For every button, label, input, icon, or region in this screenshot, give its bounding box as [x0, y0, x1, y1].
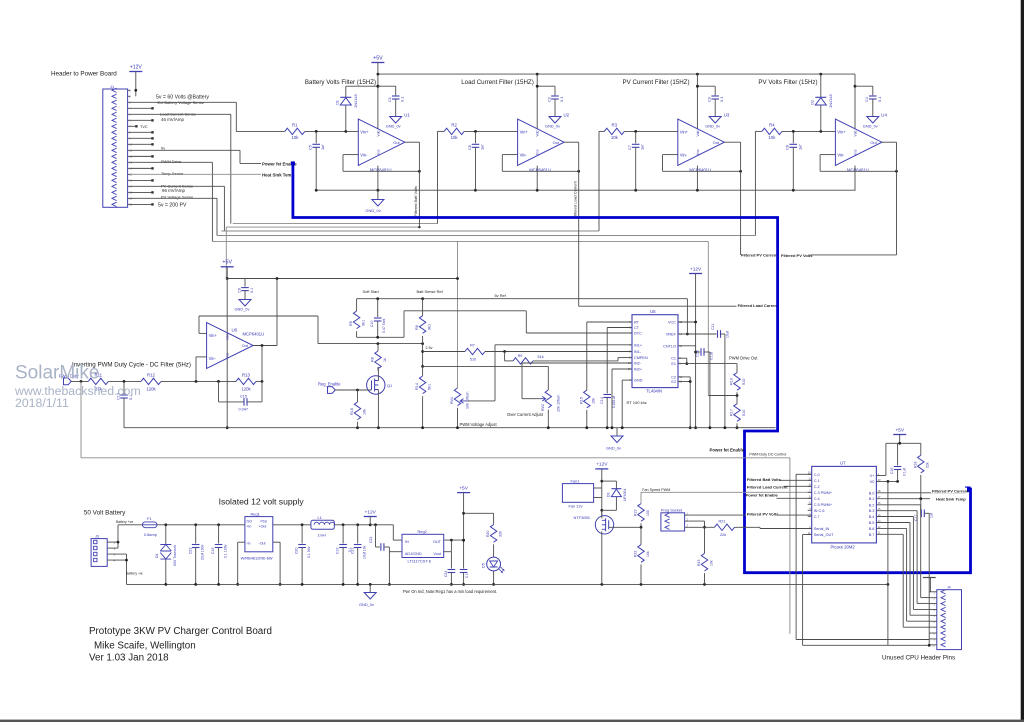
- svg-text:PV Current Filter (15HZ): PV Current Filter (15HZ): [622, 79, 689, 86]
- resistor R16: [350, 390, 366, 428]
- wire soft start bottom: [357, 336, 404, 339]
- svg-text:1N4148: 1N4148: [353, 94, 358, 108]
- capacitor C10: [370, 299, 386, 338]
- svg-text:1uf: 1uf: [320, 144, 325, 150]
- svg-text:Reg2: Reg2: [418, 529, 427, 534]
- wire riser to R4: [754, 131, 756, 235]
- svg-text:E2: E2: [671, 380, 676, 384]
- wire highlighted blue net (Power fet Enable route): [291, 161, 971, 572]
- wire TL494 GND pin: [622, 380, 632, 428]
- wire Fan Speed PWM: [641, 492, 812, 503]
- label 5v = 60 Volts @Battery: [156, 94, 209, 100]
- wire Vdd stem U1: [377, 74, 380, 128]
- svg-text:IN2-: IN2-: [634, 362, 642, 366]
- watermark www.thebackshed.com: [14, 384, 141, 398]
- svg-text:C17: C17: [914, 515, 918, 521]
- IC U7 Picaxe 20M2: [812, 461, 877, 550]
- svg-text:R19: R19: [634, 510, 638, 516]
- capacitor C7: [627, 131, 645, 190]
- svg-text:C20: C20: [295, 548, 299, 554]
- svg-text:R9: R9: [518, 354, 523, 358]
- svg-text:2.5v: 2.5v: [426, 346, 433, 350]
- wire Filtered Load Current to C.2: [784, 485, 812, 487]
- svg-text:Reg1: Reg1: [251, 511, 260, 516]
- power +12V (fan): [595, 462, 608, 469]
- net label PWM Duty DC Control: [749, 452, 786, 456]
- svg-text:C6: C6: [467, 145, 472, 150]
- filters ground rail: [315, 189, 856, 192]
- svg-text:MCP6401U: MCP6401U: [370, 168, 392, 173]
- wire pin11 Power fet Enable: [130, 150, 261, 163]
- ground GND_0v (U2 top): [545, 117, 561, 129]
- svg-text:0.47 Tant: 0.47 Tant: [382, 319, 386, 333]
- svg-text:C2: C2: [546, 97, 551, 102]
- svg-text:1mH: 1mH: [318, 532, 326, 537]
- net label Filtered PV Current (top): [741, 252, 778, 257]
- svg-text:Prototype 3KW PV Charger Contr: Prototype 3KW PV Charger Control Board: [89, 626, 272, 637]
- svg-text:1uf: 1uf: [797, 144, 802, 150]
- wire +12V to J1 pins 1-2: [134, 72, 137, 97]
- svg-text:10k: 10k: [592, 398, 596, 404]
- svg-text:B.1: B.1: [869, 497, 875, 501]
- svg-text:D2: D2: [809, 100, 814, 105]
- svg-text:Filtered Load Current: Filtered Load Current: [738, 303, 779, 308]
- title Load Current Filter: [461, 79, 534, 86]
- label PWM Drive: [161, 159, 182, 164]
- capacitor C15: [219, 381, 263, 411]
- svg-text:Vdd: Vdd: [854, 130, 858, 136]
- svg-text:0.1uf: 0.1uf: [902, 468, 906, 476]
- svg-text:9k1: 9k1: [428, 324, 432, 330]
- supply ground rail: [127, 583, 890, 586]
- title Mike Scaife Wellington: [94, 640, 196, 651]
- svg-text:5v = 200 PV: 5v = 200 PV: [158, 202, 187, 208]
- svg-text:46 mV/Amp: 46 mV/Amp: [161, 117, 184, 122]
- svg-text:Vin+: Vin+: [520, 129, 529, 134]
- resistor R23: [697, 527, 713, 584]
- label 5v = 200 PV: [158, 202, 187, 208]
- svg-text:Vdd: Vdd: [226, 334, 230, 340]
- resistor R20: [486, 525, 502, 558]
- title Prototype 3KW PV Charger Control Board: [89, 626, 272, 637]
- svg-text:OUT: OUT: [433, 540, 442, 544]
- svg-text:E1: E1: [671, 362, 676, 366]
- bus PV Voltage Sense (y236): [217, 235, 755, 237]
- power +5V (U7): [893, 427, 906, 434]
- svg-text:V+: V+: [870, 474, 876, 478]
- label PWM Drive Out: [729, 355, 758, 360]
- svg-text:C15: C15: [240, 394, 247, 398]
- svg-text:TL494IN: TL494IN: [646, 388, 662, 393]
- label Fan Speed PWM: [642, 488, 670, 492]
- svg-text:Filtered PV Current: Filtered PV Current: [932, 489, 969, 494]
- net label Filtered Load Current: [573, 180, 578, 218]
- svg-text:C.7: C.7: [814, 515, 820, 519]
- svg-text:Filtered PV Current: Filtered PV Current: [741, 252, 778, 257]
- svg-text:51k: 51k: [538, 355, 544, 359]
- svg-text:R4: R4: [769, 123, 775, 128]
- svg-text:GND: GND: [634, 379, 643, 383]
- supply wire Reg1 to L1: [273, 523, 311, 526]
- net label Filtered PV Volts (top): [781, 253, 813, 258]
- capacitor C1: [387, 96, 405, 117]
- wire output riser: [226, 277, 459, 345]
- svg-text:B.2: B.2: [869, 503, 875, 507]
- wire B.0 Filtered PV Current: [876, 488, 967, 494]
- resistor R14: [415, 366, 431, 427]
- wire top cap branch U3: [696, 85, 715, 96]
- svg-text:GND_0v: GND_0v: [235, 307, 250, 312]
- wire Vin+ bias route: [199, 316, 424, 345]
- LED D5: [482, 557, 505, 572]
- svg-text:Filtered Batt Volts: Filtered Batt Volts: [747, 477, 782, 482]
- capacitor C14: [600, 328, 616, 428]
- wire bus2 down to U6 area: [225, 227, 227, 278]
- net label Power fet Enable (mid): [710, 447, 745, 452]
- svg-text:510: 510: [742, 410, 746, 416]
- svg-text:10k: 10k: [611, 135, 619, 140]
- U7 left pins: [808, 471, 835, 537]
- svg-text:C1: C1: [671, 357, 676, 361]
- power +5V (supply out): [457, 485, 470, 492]
- capacitor C25: [460, 493, 469, 586]
- svg-text:R2: R2: [451, 123, 457, 128]
- svg-text:DTC: DTC: [634, 332, 642, 336]
- wire output U4 Filtered PV Volts: [810, 142, 896, 255]
- capacitor C6: [467, 131, 485, 190]
- ground GND_0v (U3 top): [705, 117, 721, 129]
- svg-text:10k: 10k: [451, 135, 459, 140]
- svg-text:96 mV/Amp: 96 mV/Amp: [162, 188, 185, 193]
- wire top cap branch U4: [855, 86, 873, 95]
- J1 pin stubs and numbers: [128, 89, 133, 207]
- wire PWM Drive down to R10/R17: [707, 241, 709, 395]
- wire output U1: [405, 142, 420, 227]
- diode D3: [602, 481, 627, 510]
- label 50 Volt Battery: [84, 510, 126, 517]
- regulator Reg2: [402, 529, 444, 563]
- wire V+ riser: [876, 443, 886, 475]
- net label Power fet Enable: [262, 161, 297, 166]
- svg-text:10k: 10k: [768, 135, 776, 140]
- J1 unused pin stub squares: [130, 107, 153, 205]
- label RT 100 khz: [627, 400, 647, 405]
- svg-text:100: 100: [646, 510, 650, 516]
- resistor R19: [634, 504, 650, 522]
- wire J3 negative: [107, 554, 128, 584]
- wire Vss stem U2: [536, 166, 538, 191]
- wire riser to R2: [437, 131, 439, 223]
- wire IN2+ ground: [612, 369, 632, 428]
- svg-text:CMPEN: CMPEN: [634, 356, 648, 360]
- wire Vdd stem U4: [854, 74, 857, 128]
- wire diode top branch: [346, 85, 380, 88]
- wire C9 branch: [227, 279, 245, 287]
- wire R11 to R12: [108, 380, 141, 383]
- svg-text:C7: C7: [627, 145, 632, 150]
- resistor R10: [730, 373, 746, 391]
- wire top cap branch U2: [536, 85, 555, 96]
- svg-text:D3: D3: [607, 492, 611, 497]
- diode D1: [334, 86, 358, 131]
- wire Reg2 Vout: [444, 540, 452, 552]
- svg-text:0.1uf: 0.1uf: [709, 352, 713, 360]
- svg-text:Out: Out: [393, 140, 400, 145]
- title PV Volts Filter: [758, 79, 817, 86]
- svg-text:Filtered Load Current: Filtered Load Current: [747, 484, 788, 489]
- title Isolated 12 volt supply: [219, 497, 305, 507]
- svg-text:U7: U7: [840, 461, 846, 466]
- wire R21 to Serial_IN: [735, 527, 812, 528]
- fan header Fan1: [562, 478, 601, 508]
- label Soft Start: [363, 289, 380, 294]
- net label Power fet Enable (U7): [746, 493, 779, 498]
- wire Reg1 -In: [236, 542, 245, 586]
- svg-text:Fan1: Fan1: [571, 478, 580, 483]
- wire feedback U1: [343, 155, 421, 173]
- svg-text:C8: C8: [785, 145, 790, 150]
- wire +12V stem (supply): [369, 517, 371, 525]
- op-amp U3 designator: [724, 112, 730, 117]
- wire pin13 PWM Drive: [130, 162, 212, 241]
- wire V0: [876, 480, 899, 483]
- svg-text:+12V: +12V: [130, 64, 142, 70]
- svg-text:0.1: 0.1: [877, 97, 882, 102]
- power +5V (U6): [221, 260, 234, 267]
- svg-text:Vss: Vss: [854, 149, 858, 155]
- transistor Q2 NTF3055: [574, 515, 614, 534]
- svg-text:C10: C10: [370, 321, 374, 327]
- U5 left pin labels: [628, 320, 648, 383]
- wire RV1 feed: [457, 241, 459, 388]
- U7 right pins: [869, 472, 881, 537]
- svg-text:0.047: 0.047: [239, 408, 249, 412]
- resistor R4: [762, 123, 782, 141]
- svg-text:10k: 10k: [646, 551, 650, 557]
- connector J3: [91, 534, 115, 566]
- wire C2/E2 ground: [678, 377, 692, 429]
- svg-text:510: 510: [470, 357, 476, 361]
- svg-text:10uf 16v: 10uf 16v: [363, 545, 367, 559]
- svg-text:22k: 22k: [720, 533, 726, 537]
- svg-text:Unused CPU Header Pins: Unused CPU Header Pins: [882, 654, 955, 661]
- label Unused CPU Header Pins: [882, 654, 955, 661]
- svg-text:W/RB4812MD-6W: W/RB4812MD-6W: [241, 555, 273, 560]
- svg-text:0.1: 0.1: [400, 97, 405, 102]
- svg-text:+12V: +12V: [596, 462, 608, 468]
- svg-text:R13: R13: [242, 372, 250, 377]
- resistor R7: [465, 344, 485, 362]
- IC U5 TL494: [632, 309, 678, 393]
- svg-text:Vin+: Vin+: [837, 129, 846, 134]
- wire feedback U2: [502, 155, 580, 173]
- resistor R3: [604, 123, 624, 141]
- svg-text:Vin+: Vin+: [680, 129, 689, 134]
- potentiometer RV1: [450, 388, 470, 428]
- svg-text:IN1-: IN1-: [634, 350, 642, 354]
- capacitor C12: [695, 348, 713, 428]
- svg-text:910: 910: [742, 379, 746, 385]
- capacitor C5: [308, 131, 326, 190]
- bus Filtered Batt Volts (y224): [233, 223, 438, 225]
- wire Q2 drain: [601, 510, 603, 518]
- svg-text:C24: C24: [444, 571, 448, 577]
- svg-text:C.0: C.0: [814, 473, 820, 477]
- svg-text:C16: C16: [890, 468, 894, 474]
- svg-text:B.5: B.5: [869, 521, 875, 525]
- wire 5v Ref rail: [357, 297, 688, 300]
- wire C1/E1 tie PWM Drive Out: [678, 358, 737, 372]
- svg-text:+5V: +5V: [222, 260, 232, 266]
- ground bar J4 pin1: [923, 578, 936, 592]
- svg-text:R21: R21: [719, 519, 726, 523]
- wire Vin- branch: [196, 357, 207, 382]
- wire +5V stem: [377, 63, 379, 75]
- svg-text:Vin-: Vin-: [360, 153, 368, 158]
- svg-text:R17: R17: [730, 409, 734, 416]
- ground GND_0v (filters): [365, 190, 384, 213]
- net label Filtered Batt Volts: [413, 186, 418, 217]
- wire Vdd stem U2: [536, 74, 538, 128]
- svg-text:Vin-: Vin-: [520, 153, 528, 158]
- svg-text:Ver 1.03 Jan 2018: Ver 1.03 Jan 2018: [89, 652, 169, 663]
- wire R19 to gate: [609, 523, 643, 528]
- resistor R1: [285, 123, 305, 141]
- capacitor C21: [350, 525, 366, 585]
- label Load Current Sense: [160, 112, 197, 117]
- resistor R12: [141, 372, 161, 391]
- svg-text:R15: R15: [579, 397, 583, 404]
- power +12V (supply out): [364, 509, 377, 516]
- label Pwr On Ind note: [403, 589, 497, 594]
- wire riser to R3: [598, 131, 600, 231]
- svg-text:50 Volt Battery: 50 Volt Battery: [84, 510, 126, 517]
- svg-text:+Out: +Out: [259, 524, 267, 528]
- wire IN1+ from RV1 wiper: [466, 345, 632, 401]
- svg-text:-Out: -Out: [259, 541, 266, 545]
- wire VREF: [678, 299, 689, 336]
- svg-text:120k: 120k: [146, 387, 156, 392]
- wire Serial_OUT to J4: [803, 535, 888, 646]
- svg-text:Out: Out: [870, 140, 877, 145]
- svg-text:5v Ref: 5v Ref: [495, 293, 507, 298]
- connector Prog Socket: [661, 508, 689, 532]
- svg-text:R3: R3: [612, 123, 618, 128]
- svg-text:+12V: +12V: [690, 266, 702, 272]
- resistor R8: [371, 344, 387, 371]
- label Over Current Adjust: [507, 412, 544, 417]
- svg-text:Vss: Vss: [376, 149, 380, 155]
- wire Reg2 ADJ: [388, 547, 402, 586]
- svg-text:Prog Socket: Prog Socket: [661, 508, 683, 513]
- op-amp U1 designator: [404, 112, 410, 117]
- svg-text:R5: R5: [349, 321, 353, 326]
- power +5V (filters): [371, 55, 384, 62]
- svg-text:C9: C9: [237, 288, 241, 293]
- wire RT: [587, 321, 632, 323]
- supply wire L1 to Reg2: [334, 523, 393, 526]
- svg-text:22uf 100v: 22uf 100v: [201, 544, 205, 560]
- wire Reg_Enable to gate: [335, 389, 371, 392]
- svg-text:Picaxe 20M2: Picaxe 20M2: [831, 544, 856, 549]
- label 0v: [161, 146, 165, 151]
- svg-text:RV2: RV2: [541, 404, 545, 411]
- wire R1 to opamp: [305, 130, 359, 133]
- svg-text:15: 15: [628, 367, 631, 371]
- svg-text:U6: U6: [232, 327, 238, 332]
- wire R10/R17 junction: [708, 392, 738, 403]
- svg-text:120k: 120k: [241, 387, 251, 392]
- wire Filtered Batt Volts to C.1: [780, 479, 812, 481]
- svg-text:C1: C1: [387, 97, 392, 102]
- svg-text:R7: R7: [470, 344, 475, 348]
- svg-text:Battery -ve: Battery -ve: [126, 572, 143, 576]
- svg-text:60V Transorb: 60V Transorb: [173, 545, 177, 566]
- svg-text:0.1 50v: 0.1 50v: [307, 546, 311, 558]
- connector J4: [930, 585, 962, 649]
- diode D4 transorb: [155, 525, 177, 585]
- resistor R17: [730, 404, 746, 429]
- svg-text:Vin-: Vin-: [837, 153, 845, 158]
- svg-text:Vss: Vss: [226, 352, 230, 358]
- wire B.1 Heat Sink Temp: [876, 497, 930, 500]
- capacitor C9: [237, 288, 254, 300]
- svg-text:LT1117CST-6: LT1117CST-6: [408, 558, 431, 563]
- resistor R13: [236, 372, 256, 391]
- svg-text:Soft Start: Soft Start: [363, 289, 380, 294]
- capacitor C23: [188, 525, 204, 585]
- bus PWM Drive (y241): [212, 240, 708, 242]
- svg-text:Q1: Q1: [387, 383, 392, 388]
- svg-text:1uf: 1uf: [480, 144, 485, 150]
- svg-text:Vdd: Vdd: [696, 130, 700, 136]
- svg-text:GND_0v: GND_0v: [386, 124, 401, 129]
- wire U6 output: [253, 344, 277, 381]
- svg-text:Mike Scaife, Wellington: Mike Scaife, Wellington: [94, 640, 196, 651]
- ground GND_0v (supply): [359, 584, 376, 607]
- svg-text:NTF3055: NTF3055: [574, 515, 590, 520]
- pin7 n/c mark: [130, 125, 147, 129]
- port Reg_Enable: [318, 382, 341, 394]
- wire R4 to opamp: [782, 130, 836, 133]
- wire to R20: [464, 513, 494, 524]
- svg-text:U1: U1: [404, 112, 410, 117]
- inductor L1: [311, 515, 335, 537]
- svg-text:Temp Sense: Temp Sense: [161, 171, 184, 176]
- wire pin5 Load Current Sense: [130, 114, 230, 223]
- wire Q1 source: [377, 390, 379, 428]
- capacitor C8: [785, 131, 803, 190]
- capacitor C13: [116, 381, 133, 427]
- svg-text:Batt Sense Ref: Batt Sense Ref: [417, 289, 444, 294]
- svg-text:0.1: 0.1: [719, 97, 724, 102]
- wire J3 positive: [107, 525, 142, 548]
- capacitor C16: [890, 443, 906, 481]
- svg-text:C2: C2: [671, 375, 676, 379]
- wire RV2 wiper to IN2-: [522, 363, 632, 399]
- svg-text:0.1: 0.1: [465, 573, 469, 578]
- wire CNTLO: [678, 345, 696, 347]
- svg-text:Vss: Vss: [536, 149, 540, 155]
- svg-text:2018/1/11: 2018/1/11: [15, 396, 69, 410]
- wire 2.5v line: [423, 351, 465, 353]
- wire +5V to V+ rail: [886, 435, 921, 445]
- svg-text:C.3 PWM+: C.3 PWM+: [814, 491, 833, 495]
- svg-text:R6: R6: [415, 325, 419, 330]
- svg-text:Vdd: Vdd: [376, 130, 380, 136]
- svg-text:C18: C18: [211, 548, 215, 554]
- svg-text:Battery Volts Filter (15HZ): Battery Volts Filter (15HZ): [305, 79, 376, 86]
